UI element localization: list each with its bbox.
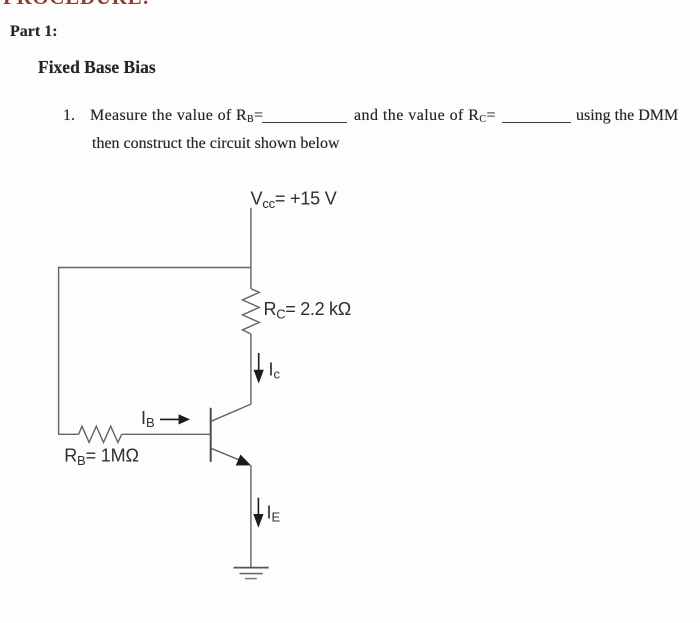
wire Vcc down to junction	[250, 208, 252, 268]
list item number	[63, 108, 75, 124]
resistor RC	[243, 289, 260, 334]
resistor RB	[79, 426, 122, 442]
heading Fixed Base Bias	[38, 59, 156, 77]
svg-text:Vcc= +15 V: Vcc= +15 V	[251, 189, 337, 212]
current arrow Ic	[258, 353, 260, 372]
wire emitter down to ground	[250, 465, 252, 568]
wire base left segment	[59, 433, 79, 435]
heading Part 1	[10, 24, 58, 40]
wire top horizontal to left branch	[59, 267, 251, 269]
transistor Q1 emitter arrowhead	[236, 455, 251, 466]
wire left vertical down to RB	[58, 267, 60, 435]
transistor Q1 collector diagonal	[211, 404, 250, 421]
transistor Q1 base bar	[210, 408, 212, 462]
blank line 2	[502, 122, 571, 123]
svg-text:RC= 2.2 kΩ: RC= 2.2 kΩ	[264, 299, 351, 322]
item text: and the value of RC=	[354, 108, 496, 125]
svg-text:IE: IE	[267, 502, 281, 524]
blank line 1	[262, 122, 347, 123]
wire base right segment	[122, 433, 211, 435]
svg-text:Ic: Ic	[269, 359, 281, 381]
transistor Q1 emitter diagonal	[211, 448, 245, 462]
current arrow IE	[257, 498, 259, 516]
item text: Measure the value of RB=	[90, 108, 263, 125]
ground	[234, 567, 269, 569]
wire junction to RC top	[250, 268, 252, 289]
item text: using the DMM	[576, 108, 678, 124]
heading PROCEDURE (clipped at top)	[3, 0, 150, 8]
wire RC bottom to collector	[250, 334, 252, 405]
svg-text:RB= 1MΩ: RB= 1MΩ	[64, 445, 139, 468]
item text line 2	[92, 136, 340, 152]
svg-text:IB: IB	[141, 408, 155, 430]
current arrow IB	[160, 418, 180, 420]
